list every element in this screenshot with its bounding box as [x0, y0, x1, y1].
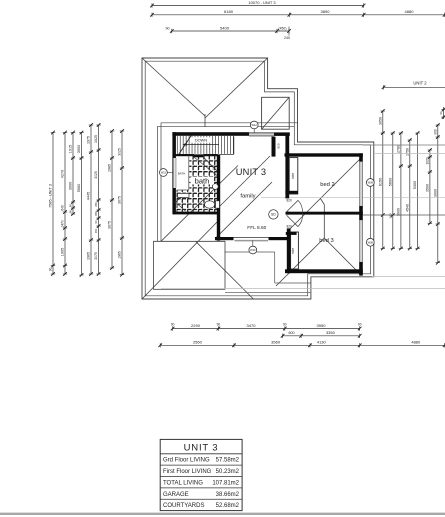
extension line robe	[261, 197, 445, 199]
stairs bottom edge	[177, 153, 234, 155]
svg-text:820: 820	[212, 164, 216, 169]
extension line gray 2	[161, 288, 445, 290]
left dim chain 4445	[90, 125, 92, 274]
wall left (west)	[172, 132, 176, 214]
svg-text:1985: 1985	[108, 164, 112, 172]
cistern	[178, 193, 190, 197]
svg-text:7585 - UNIT 3: 7585 - UNIT 3	[49, 184, 53, 208]
bath door swing	[203, 157, 217, 171]
svg-text:W08: W08	[368, 240, 374, 244]
label bath	[191, 177, 215, 184]
svg-text:350: 350	[94, 202, 98, 207]
wall bed3 west	[287, 228, 291, 273]
svg-text:3025: 3025	[118, 148, 122, 156]
svg-text:820: 820	[287, 199, 293, 203]
svg-text:90: 90	[166, 27, 170, 31]
svg-text:1905: 1905	[61, 248, 65, 256]
bath door leaf	[193, 155, 203, 157]
left dim chain 4270	[64, 133, 66, 275]
lower storey step outline	[224, 251, 274, 253]
window W10	[234, 237, 269, 239]
svg-text:DOWN: DOWN	[195, 138, 208, 143]
wall robe2 west	[285, 133, 289, 199]
svg-text:1750: 1750	[405, 148, 409, 156]
stairs break line	[179, 136, 192, 155]
roof outer outline left block	[142, 58, 374, 299]
svg-text:UNIT 3: UNIT 3	[184, 443, 219, 454]
svg-text:1915: 1915	[69, 145, 73, 153]
svg-text:UNIT 3: UNIT 3	[236, 167, 266, 177]
door node	[286, 212, 290, 215]
wc door swings	[175, 202, 186, 212]
svg-text:W10: W10	[250, 248, 256, 252]
smoke detector SD	[269, 210, 278, 219]
svg-text:bath: bath	[195, 177, 210, 186]
garage-below outline	[154, 241, 226, 289]
bed3 valley arm left	[276, 238, 324, 286]
svg-text:W12: W12	[252, 123, 258, 127]
svg-text:robe: robe	[291, 248, 295, 255]
svg-text:1025: 1025	[94, 135, 98, 143]
svg-text:bed 3: bed 3	[319, 238, 334, 244]
svg-text:640: 640	[61, 205, 65, 211]
svg-text:3900: 3900	[77, 145, 81, 153]
right dim chain 1750/4540	[409, 140, 411, 249]
svg-text:920: 920	[277, 143, 281, 148]
roof diagonal family	[215, 182, 272, 239]
svg-text:820: 820	[287, 225, 293, 229]
svg-text:90: 90	[217, 323, 221, 327]
svg-text:3025: 3025	[94, 171, 98, 179]
stairs arrow	[183, 143, 219, 145]
svg-text:300: 300	[388, 213, 392, 218]
svg-text:FFL 8.60: FFL 8.60	[247, 225, 266, 231]
roof diagonal hall	[220, 156, 270, 206]
stairs right edge	[233, 137, 235, 155]
roof bay box top right	[262, 97, 290, 129]
window symbol W10	[252, 240, 254, 246]
roof hip NW	[142, 58, 205, 116]
bottom dim row 2: 600 / 3350	[283, 335, 360, 337]
svg-text:5560: 5560	[77, 184, 81, 192]
svg-text:3000: 3000	[433, 189, 437, 197]
extension line low	[225, 292, 311, 294]
wall hall jamb 1	[272, 137, 276, 157]
window W12	[249, 132, 274, 134]
door bed2 leaf + arc	[287, 200, 298, 211]
svg-text:107.81m2: 107.81m2	[212, 480, 239, 486]
area table	[160, 439, 242, 510]
svg-text:3075: 3075	[118, 196, 122, 204]
svg-text:First Floor LIVING: First Floor LIVING	[163, 469, 212, 475]
svg-text:350: 350	[94, 228, 98, 233]
window W9 bed2	[359, 162, 362, 206]
svg-text:3075: 3075	[108, 221, 112, 229]
extension line right mid	[363, 214, 445, 216]
right roof hip NE	[320, 157, 362, 199]
svg-text:(450): (450)	[279, 27, 287, 31]
right dim chain 1020/3500	[429, 150, 431, 223]
wall top (stairs north)	[172, 132, 249, 136]
svg-text:SD: SD	[271, 212, 276, 216]
svg-text:6150: 6150	[378, 178, 382, 186]
svg-text:1020: 1020	[425, 157, 429, 164]
svg-text:6180: 6180	[224, 9, 234, 14]
svg-text:3050: 3050	[378, 117, 382, 125]
svg-text:4880: 4880	[405, 9, 415, 14]
svg-text:5400: 5400	[220, 26, 230, 31]
window symbol W12	[250, 121, 258, 129]
svg-text:10070 - UNIT 3: 10070 - UNIT 3	[248, 0, 276, 5]
svg-text:600: 600	[289, 331, 295, 335]
wall under stairs right	[204, 154, 218, 156]
wall bed3 south	[285, 269, 363, 273]
wall family south west part	[215, 237, 234, 240]
extension line gray 1	[375, 152, 445, 154]
svg-text:family: family	[240, 194, 255, 200]
svg-text:57.58m2: 57.58m2	[216, 458, 240, 464]
svg-text:1975: 1975	[87, 136, 91, 144]
roof diagonal garage hip	[196, 241, 254, 299]
bed3 valley arm right	[324, 238, 361, 276]
svg-text:robe: robe	[291, 173, 295, 180]
stairs treads	[176, 136, 178, 154]
svg-text:4540: 4540	[405, 204, 409, 212]
svg-text:3560: 3560	[271, 340, 281, 345]
svg-text:1965: 1965	[118, 251, 122, 259]
wall bed east	[359, 153, 363, 275]
sheet border line	[0, 513, 445, 515]
svg-text:4445: 4445	[87, 192, 91, 200]
svg-text:90: 90	[171, 323, 175, 327]
eave / house line inner	[161, 122, 298, 124]
svg-text:3350: 3350	[326, 330, 336, 335]
svg-text:4270: 4270	[61, 170, 65, 178]
roof diagonal valley	[161, 166, 238, 242]
svg-text:240: 240	[284, 36, 290, 40]
left dim chain 3025	[121, 131, 123, 275]
svg-text:1470: 1470	[61, 220, 65, 228]
wall top right of window	[274, 132, 290, 136]
wall bath/family east	[217, 155, 220, 241]
svg-text:90: 90	[358, 323, 362, 327]
bottom dim row 3: 2560/3560/4130/4880	[160, 344, 444, 346]
svg-text:3075: 3075	[94, 252, 98, 260]
window symbol W11	[160, 169, 168, 177]
roof ridge	[204, 114, 206, 127]
wall family south east part	[269, 237, 292, 240]
window symbol W9	[366, 179, 374, 187]
roof hip NE	[205, 58, 268, 118]
dim line row 2: 6180 / 3890 / 4880	[152, 14, 445, 16]
robe 2 box	[289, 158, 298, 194]
svg-text:bed 2: bed 2	[320, 182, 335, 188]
svg-text:COURTYARDS: COURTYARDS	[163, 503, 204, 509]
wall bed2 north	[285, 153, 363, 156]
svg-text:3000: 3000	[69, 182, 73, 190]
right dim chain 5300	[417, 133, 419, 249]
roof diagonal long SW-NE	[142, 219, 220, 299]
toilet wc	[205, 201, 215, 208]
svg-text:2780: 2780	[396, 145, 400, 153]
dim line 10070 UNIT 3 (top row 1)	[152, 5, 364, 7]
svg-text:Grd Floor LIVING: Grd Floor LIVING	[163, 458, 210, 464]
window W8 bed3	[359, 220, 362, 262]
extension line gray 3	[372, 276, 445, 278]
svg-text:90: 90	[49, 268, 53, 272]
svg-text:1965: 1965	[87, 252, 91, 260]
svg-text:3890: 3890	[321, 9, 331, 14]
svg-text:50.23m2: 50.23m2	[216, 469, 240, 475]
svg-text:38.66m2: 38.66m2	[216, 492, 240, 498]
left dim chain 7585	[52, 133, 54, 275]
svg-text:900: 900	[433, 129, 437, 135]
right dim chain 900/3000	[437, 125, 439, 263]
svg-text:90: 90	[69, 204, 73, 208]
left dim chain 1915/3000	[72, 133, 74, 215]
right dim chain 90	[443, 107, 445, 119]
svg-text:3500: 3500	[425, 184, 429, 192]
svg-text:52.68m2: 52.68m2	[216, 503, 240, 509]
svg-text:GARAGE: GARAGE	[163, 492, 189, 498]
svg-text:5600: 5600	[388, 178, 392, 186]
svg-text:UNIT 2: UNIT 2	[413, 81, 427, 86]
svg-text:4880: 4880	[411, 340, 421, 345]
wall bath bottom	[173, 212, 219, 215]
corridor line	[188, 155, 190, 190]
basin bath	[212, 184, 218, 190]
door bed3 leaf + arc	[287, 215, 298, 226]
dim line row 3: 90 / 5400 / 450 / 240	[172, 30, 289, 32]
left dim chain 1985	[111, 131, 113, 268]
svg-text:4130: 4130	[317, 340, 327, 345]
svg-text:W11: W11	[161, 171, 167, 175]
svg-text:2560: 2560	[193, 340, 203, 345]
bottom dim row 1: 90/2290/90/3470/90/3950/90	[173, 328, 360, 330]
svg-text:90: 90	[69, 210, 73, 214]
right roof ridge	[320, 199, 324, 205]
extension line right eave	[363, 144, 445, 146]
svg-text:W09: W09	[368, 181, 374, 185]
svg-text:90: 90	[283, 323, 287, 327]
right dim chain 2780/3600	[400, 133, 402, 249]
wall mid bed2/bed3	[287, 212, 363, 215]
left dim chain 1025	[98, 125, 100, 274]
right roof valley SW	[287, 199, 320, 232]
svg-text:950: 950	[94, 211, 98, 216]
DOWN label	[191, 137, 212, 142]
left dim chain 5560	[81, 133, 83, 276]
window symbol W8	[366, 238, 374, 246]
table header UNIT 3	[160, 453, 242, 455]
robe 3 box	[291, 232, 299, 269]
svg-text:2290: 2290	[191, 323, 201, 328]
wall under stairs left	[173, 154, 194, 156]
right dim chain 5600	[392, 133, 394, 249]
svg-text:3470: 3470	[247, 323, 257, 328]
roof inner double line	[145, 61, 370, 296]
svg-text:5300: 5300	[413, 181, 417, 189]
window W11 in west wall	[173, 158, 176, 188]
svg-text:BATH: BATH	[178, 171, 185, 175]
svg-text:TOTAL LIVING: TOTAL LIVING	[163, 480, 203, 486]
right dim chain 6150	[382, 111, 384, 249]
svg-text:3950: 3950	[317, 323, 327, 328]
